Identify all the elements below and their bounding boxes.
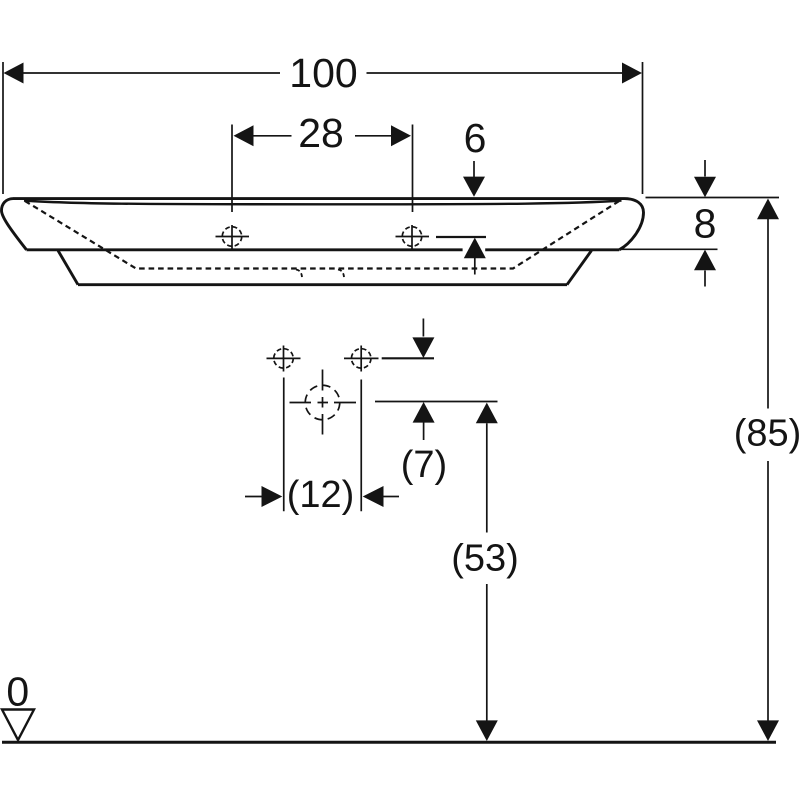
dim 28 right extension line bbox=[412, 125, 414, 213]
hole level reference line (plan) bbox=[382, 357, 434, 359]
dim (53) up arrow head bbox=[476, 403, 498, 424]
hole level pointer arrow head (plan) bbox=[412, 337, 434, 358]
fixing hole cross left (plan view) dashed circle bbox=[274, 349, 294, 369]
hidden bowl contour dashed bbox=[25, 200, 622, 269]
washbasin pedestal bottom edge bbox=[78, 283, 567, 286]
svg-text:8: 8 bbox=[694, 201, 717, 247]
dim (12) right arrow shaft bbox=[384, 496, 400, 498]
hole level up arrow shaft bbox=[474, 258, 476, 275]
dim (53) upper shaft bbox=[486, 423, 488, 532]
dim 28 left extension line bbox=[231, 125, 233, 213]
dim 28 right arrow bbox=[391, 125, 411, 146]
dim 8 top reference line bbox=[646, 197, 780, 199]
fixing hole cross left (plan view) horizontal bbox=[267, 357, 301, 359]
dim 100 right extension line bbox=[642, 62, 644, 194]
washbasin rim inner edge bbox=[24, 201, 622, 205]
dim (12) right arrow head bbox=[363, 486, 384, 507]
dim (12) left arrow head bbox=[262, 486, 283, 507]
fixing hole cross left (plan view) vertical bbox=[283, 346, 285, 372]
hole level pointer shaft (plan) bbox=[422, 319, 424, 337]
washbasin pedestal left slant bbox=[58, 251, 78, 285]
dim 100 line right segment bbox=[367, 72, 623, 74]
datum triangle bbox=[2, 710, 34, 741]
dim 100 line left segment bbox=[24, 72, 281, 74]
dim (12) left extension line bbox=[283, 378, 285, 512]
fixing hole cross right dashed circle bbox=[402, 227, 422, 247]
faucet hole centerline horizontal bbox=[290, 402, 357, 404]
svg-text:28: 28 bbox=[298, 110, 344, 156]
svg-text:(12): (12) bbox=[287, 474, 355, 516]
dim 8 up arrow head bbox=[694, 250, 716, 271]
fixing hole cross left dashed circle bbox=[222, 227, 242, 247]
dim (7) up arrow shaft bbox=[423, 423, 425, 441]
dim 28 line right segment bbox=[355, 135, 391, 137]
dim 100 left extension line bbox=[2, 62, 4, 194]
svg-text:(7): (7) bbox=[401, 444, 447, 486]
fixing hole cross right vertical bbox=[411, 225, 413, 250]
dim 28 line left segment bbox=[254, 135, 292, 137]
dim (12) left arrow shaft bbox=[245, 496, 262, 498]
drain hook right bbox=[338, 270, 344, 279]
dim 100 left arrow bbox=[4, 63, 24, 84]
washbasin left tip curve bbox=[2, 199, 27, 250]
fixing hole cross left vertical bbox=[231, 225, 233, 250]
dim (7) up arrow head bbox=[413, 402, 435, 423]
fixing hole cross right (front view) horizontal bbox=[396, 236, 430, 238]
dim 8 bottom reference line bbox=[620, 248, 718, 250]
fixing hole cross right (plan view) dashed circle bbox=[351, 349, 371, 369]
hole level up arrow head bbox=[464, 238, 486, 259]
fixing hole cross left (front view) horizontal bbox=[216, 236, 250, 238]
washbasin pedestal right slant bbox=[567, 251, 592, 285]
washbasin rim top edge bbox=[13, 197, 625, 200]
fixing hole cross right (plan view) horizontal bbox=[344, 357, 379, 359]
dim 100 right arrow bbox=[622, 63, 642, 84]
faucet hole centerline vertical bbox=[322, 370, 324, 435]
washbasin right end curve bbox=[619, 199, 643, 250]
dim (85) top arrow head bbox=[757, 199, 779, 220]
dim (12) right extension line bbox=[360, 380, 362, 512]
svg-text:100: 100 bbox=[289, 50, 357, 96]
drain hook left bbox=[296, 270, 302, 279]
dim 28 left arrow bbox=[234, 125, 254, 146]
dim (53) bottom arrow head bbox=[476, 720, 498, 741]
faucet hole dashed circle bbox=[305, 385, 340, 420]
label 6 arrow shaft bbox=[473, 161, 475, 177]
fixing hole cross right (plan view) vertical bbox=[360, 346, 362, 372]
dim (53) lower shaft bbox=[486, 584, 488, 721]
svg-text:(53): (53) bbox=[451, 538, 519, 580]
dim 8 up arrow shaft bbox=[704, 271, 706, 287]
label 6 arrow head bbox=[463, 177, 485, 197]
dim 8 down arrow shaft bbox=[704, 160, 706, 177]
floor line bbox=[2, 741, 776, 744]
svg-text:6: 6 bbox=[464, 115, 487, 161]
dim (85) bottom arrow head bbox=[757, 720, 779, 741]
dim (85) lower shaft bbox=[767, 461, 769, 721]
svg-text:(85): (85) bbox=[734, 413, 800, 455]
svg-text:0: 0 bbox=[6, 669, 29, 715]
dim 8 down arrow head bbox=[694, 177, 716, 198]
dim (85) upper shaft bbox=[767, 219, 769, 409]
washbasin bottom edge (gap at arrow) bbox=[27, 248, 620, 251]
faucet level reference line bbox=[375, 401, 498, 403]
hole level reference line (6 dim) bbox=[436, 236, 486, 238]
